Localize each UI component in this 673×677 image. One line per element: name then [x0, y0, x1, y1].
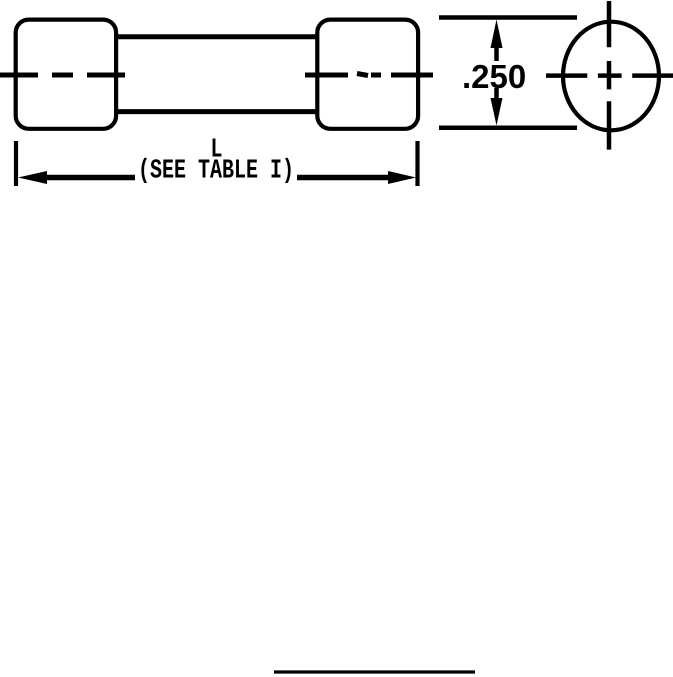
dimension L extension line left: [14, 141, 18, 186]
bottom rule: [274, 670, 475, 673]
dimension L extension line right: [415, 141, 419, 186]
centerline left cap: [0, 73, 125, 78]
svg-text:.250: .250: [462, 58, 526, 95]
dimension L arrowhead right: [388, 171, 416, 184]
dimension L arrowhead left: [18, 171, 47, 184]
dimension .250 top line: [439, 15, 577, 20]
end view vertical centerline: [607, 1, 612, 150]
dimension L line left segment: [44, 175, 135, 180]
end view horizontal centerline: [546, 73, 673, 78]
dimension .250 down shaft: [494, 88, 499, 102]
dimension .250 up arrow: [491, 20, 503, 49]
dimension .250 down arrow: [491, 98, 503, 126]
svg-text:(SEE TABLE I): (SEE TABLE I): [138, 156, 294, 187]
fuse body bottom line: [116, 109, 318, 114]
dimension .250 bottom line: [439, 125, 577, 130]
fuse body top line: [116, 34, 318, 39]
left end cap: [16, 20, 116, 129]
end view circle: [563, 22, 659, 131]
dimension .250 up shaft: [494, 44, 499, 61]
dimension L line right segment: [297, 175, 392, 180]
right end cap: [317, 20, 418, 129]
centerline right cap: [305, 74, 433, 76]
